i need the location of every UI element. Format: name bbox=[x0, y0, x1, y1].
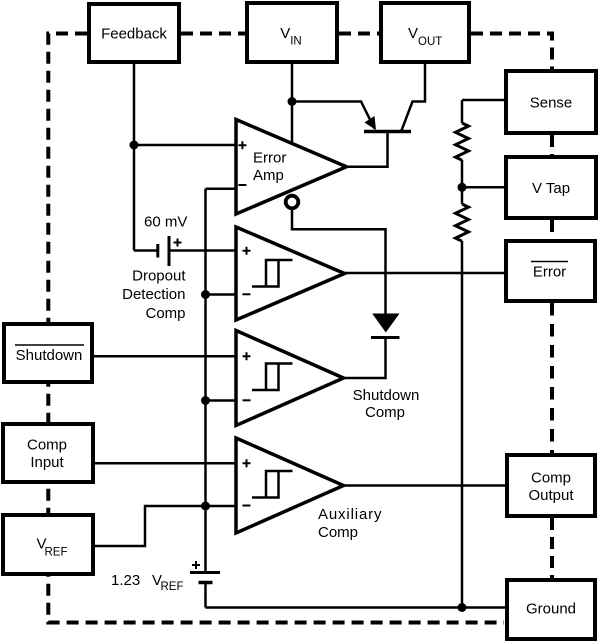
svg-text:Sense: Sense bbox=[530, 95, 573, 112]
comparator U3 shutdown comp bbox=[236, 331, 344, 426]
junction dot VIN node bbox=[288, 97, 297, 106]
svg-text:1.23: 1.23 bbox=[111, 572, 140, 589]
plus sign U4 bbox=[243, 459, 251, 467]
svg-text:Comp: Comp bbox=[27, 437, 67, 454]
svg-text:Shutdown: Shutdown bbox=[353, 387, 420, 404]
minus sign error amp bbox=[238, 184, 246, 186]
svg-text:Error: Error bbox=[533, 264, 566, 281]
wire shutdown comp minus bbox=[206, 399, 237, 402]
dashed wire VOUT to Sense corner bbox=[471, 34, 552, 70]
minus sign U4 bbox=[243, 505, 251, 507]
plus sign U2 bbox=[243, 247, 251, 255]
svg-text:Comp: Comp bbox=[318, 524, 358, 541]
wire collector of Q1 from VOUT bbox=[402, 64, 426, 131]
svg-text:Auxiliary: Auxiliary bbox=[318, 506, 382, 523]
svg-text:Amp: Amp bbox=[253, 167, 284, 184]
svg-text:IN: IN bbox=[290, 36, 302, 48]
op-amp U1 error amp bbox=[236, 120, 347, 215]
junction dot resistor tap bbox=[458, 183, 467, 192]
wire aux comp minus bbox=[206, 505, 237, 508]
hysteresis symbol U2 bbox=[252, 260, 293, 287]
resistor R2 bbox=[456, 204, 469, 241]
wire between resistors bbox=[461, 160, 464, 204]
hysteresis symbol U4 bbox=[252, 471, 293, 498]
wire common minus bus vertical bbox=[204, 189, 207, 571]
svg-text:V: V bbox=[280, 25, 290, 42]
wire Feedback down bbox=[133, 64, 136, 251]
wire diode anode up to inverter bubble bbox=[292, 208, 386, 314]
emitter arrowhead Q1 bbox=[365, 116, 377, 130]
battery B1 60mV short bar bbox=[156, 244, 159, 258]
plus sign error amp bbox=[238, 141, 246, 149]
battery B2 1.23 VREF short bar bbox=[199, 581, 213, 585]
box Comp Output pin bbox=[507, 455, 595, 516]
junction dot minus bus U3 bbox=[201, 396, 210, 405]
wire sense resistor top to Sense box bbox=[462, 99, 506, 102]
box VIN pin bbox=[247, 3, 337, 62]
dashed wire VIN to VOUT bbox=[339, 32, 379, 36]
wire comp input box to aux comp + bbox=[94, 462, 236, 465]
svg-text:Error: Error bbox=[253, 150, 286, 167]
wire error amp minus input bbox=[206, 187, 237, 190]
plus sign battery B1 bbox=[174, 239, 182, 247]
plus sign U3 bbox=[243, 352, 251, 360]
wire dropout comp minus bbox=[206, 293, 237, 296]
wire emitter of Q1 bbox=[292, 102, 375, 129]
box VREF pin bbox=[3, 515, 93, 574]
svg-text:V: V bbox=[408, 25, 418, 42]
wire shutdown box to shutdown comp + bbox=[93, 355, 236, 358]
dashed V Tap to Error bbox=[550, 220, 554, 239]
battery B1 60mV long bar bbox=[168, 236, 171, 266]
box Shutdown pin bbox=[4, 324, 92, 382]
wire feedback to error amp + bbox=[134, 144, 236, 147]
wire dropout comp output to Error box bbox=[345, 272, 507, 275]
svg-text:Ground: Ground bbox=[526, 601, 576, 618]
dashed Comp Output to Ground bbox=[550, 518, 554, 578]
comparator U4 auxiliary comp bbox=[236, 438, 344, 533]
transistor Q1 base bar bbox=[364, 130, 411, 134]
diode D1 triangle bbox=[372, 314, 399, 333]
svg-text:Feedback: Feedback bbox=[101, 26, 167, 43]
wire resistor chain down to ground rail bbox=[461, 241, 464, 608]
box Sense pin bbox=[506, 71, 596, 133]
box Comp Input pin bbox=[3, 424, 93, 482]
svg-text:REF: REF bbox=[161, 581, 184, 593]
box Error pin bbox=[506, 241, 595, 301]
junction dot minus bus U2 bbox=[201, 290, 210, 299]
svg-text:OUT: OUT bbox=[418, 36, 442, 48]
box V Tap pin bbox=[506, 157, 596, 218]
svg-text:Input: Input bbox=[30, 454, 64, 471]
svg-text:Comp: Comp bbox=[145, 305, 185, 322]
wire battery to dropout comp + bbox=[169, 249, 236, 252]
resistor R1 bbox=[456, 123, 469, 160]
dashed Sense to V Tap bbox=[550, 135, 554, 155]
wire base of Q1 to error amp output bbox=[348, 132, 388, 167]
svg-text:Dropout: Dropout bbox=[132, 268, 186, 285]
box VOUT pin bbox=[381, 3, 469, 62]
dashed Error to Comp Output bbox=[550, 303, 554, 453]
dashed wire Feedback to VIN bbox=[181, 32, 245, 36]
battery B2 1.23 VREF long bar bbox=[190, 571, 220, 574]
svg-text:V Tap: V Tap bbox=[532, 180, 570, 197]
plus sign battery B2 bbox=[192, 561, 200, 569]
comparator U2 dropout detection comp bbox=[236, 227, 345, 320]
box Feedback pin bbox=[89, 4, 179, 62]
svg-text:Detection: Detection bbox=[122, 286, 185, 303]
IC boundary dashed: left side top corner, left vertical, bottom horizontal bbox=[48, 34, 504, 623]
wire VIN down to error amp top bbox=[291, 64, 294, 143]
svg-text:60 mV: 60 mV bbox=[144, 214, 187, 231]
ground rail wire bbox=[206, 606, 509, 609]
svg-text:Comp: Comp bbox=[365, 404, 405, 421]
svg-text:REF: REF bbox=[45, 547, 68, 559]
box Ground pin bbox=[507, 580, 595, 639]
wire resistor chain vertical top bbox=[461, 100, 464, 123]
svg-text:Shutdown: Shutdown bbox=[16, 347, 83, 364]
junction dot ground rail bbox=[458, 603, 467, 612]
wire to 60mV battery bbox=[134, 249, 157, 252]
wire VREF box to minus bus bbox=[94, 506, 206, 546]
wire aux comp output to Comp Output box bbox=[344, 484, 509, 487]
hysteresis symbol U3 bbox=[252, 364, 293, 391]
wire shutdown comp output bbox=[343, 337, 386, 378]
svg-text:Output: Output bbox=[528, 487, 574, 504]
inverter bubble on error amp output bbox=[286, 196, 299, 209]
junction dot feedback/error amp bbox=[130, 141, 139, 150]
wire battery B2 to ground rail bbox=[204, 583, 207, 608]
diode D1 cathode bar bbox=[371, 336, 400, 339]
svg-text:Comp: Comp bbox=[531, 470, 571, 487]
junction dot minus bus U4/VREF bbox=[201, 502, 210, 511]
minus sign U2 bbox=[243, 293, 251, 295]
wire tap to V Tap box bbox=[462, 186, 506, 189]
minus sign U3 bbox=[243, 399, 251, 401]
